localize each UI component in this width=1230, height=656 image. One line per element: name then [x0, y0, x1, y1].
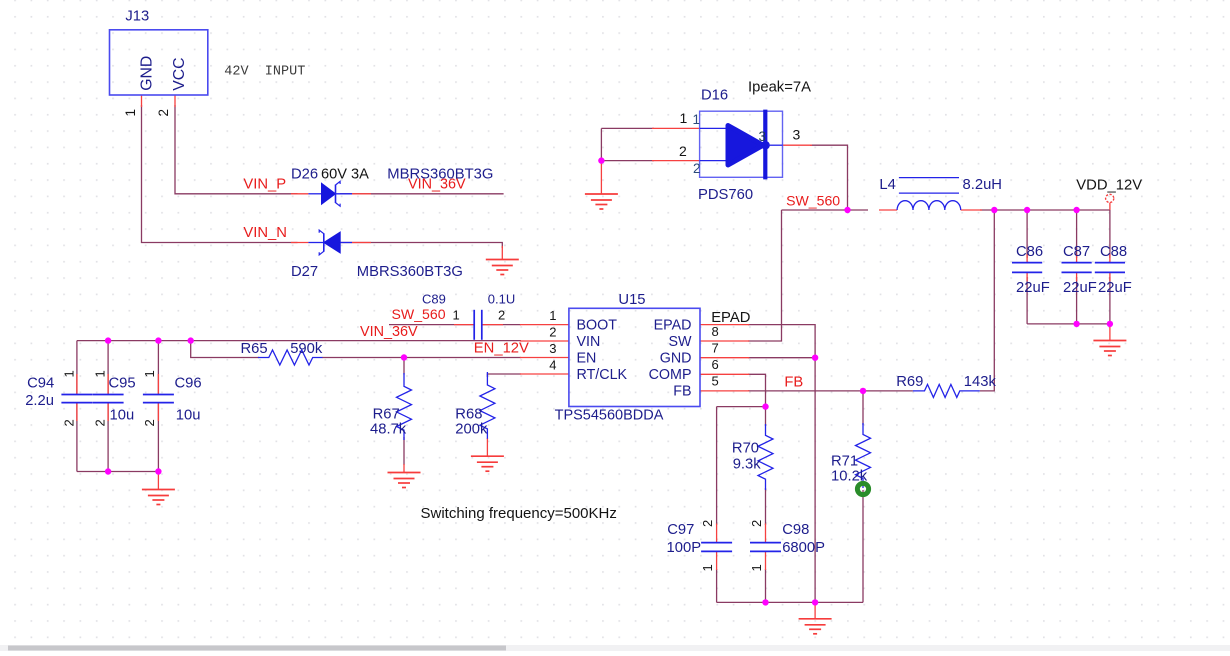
wire C98 below to bus — [765, 488, 767, 525]
svg-text:VCC: VCC — [171, 57, 188, 90]
svg-text:EPAD: EPAD — [711, 310, 750, 326]
junction C87 bottom — [1073, 321, 1079, 327]
scrollbar track — [0, 645, 1230, 651]
pin stub D26 cathode — [352, 193, 371, 195]
svg-text:BOOT: BOOT — [577, 317, 618, 333]
svg-text:6800P: 6800P — [782, 540, 825, 556]
pin stub C96 top — [157, 374, 159, 394]
svg-text:C87: C87 — [1063, 244, 1090, 260]
pin stub U15 pin1 — [520, 324, 569, 326]
pin stub D27 anode — [352, 242, 371, 244]
pin stub C96 bottom — [157, 403, 159, 421]
pin stub C97 top — [716, 524, 718, 543]
pin stub C89 pin2 — [482, 324, 503, 326]
ground D16 — [585, 194, 618, 209]
capacitor C87 — [1062, 244, 1097, 296]
junction R67 tap — [401, 354, 407, 360]
pin stub C87 bottom — [1076, 272, 1078, 281]
wire C86 bottom — [1026, 277, 1028, 324]
pin stub D26 anode — [291, 193, 308, 195]
ground C88 — [1093, 341, 1126, 356]
ground stub bottom bus — [814, 602, 816, 618]
wire EPAD row and vertical to bottom bus — [748, 325, 815, 603]
svg-text:R70: R70 — [732, 440, 759, 456]
ground stub R68 — [486, 438, 488, 456]
svg-text:RT/CLK: RT/CLK — [577, 367, 628, 383]
svg-text:3: 3 — [549, 341, 556, 356]
svg-text:R69: R69 — [896, 374, 923, 390]
capacitor C97 — [667, 520, 733, 572]
wire RT/CLK row and R68 drop — [487, 374, 521, 377]
svg-text:10u: 10u — [176, 408, 201, 424]
wire bottom ground bus — [717, 601, 863, 603]
junction C98 bottom bus — [762, 599, 768, 605]
wire R67 vertical — [403, 358, 405, 375]
wire C96 lead — [157, 341, 159, 395]
resistor R71 — [831, 423, 871, 488]
wire VCC pin2 to VIN_P row — [175, 105, 298, 194]
pin stub C88 top — [1109, 254, 1111, 263]
pin stub D16 pin2 — [652, 160, 700, 162]
svg-text:1: 1 — [749, 564, 764, 571]
capacitor C89 — [422, 292, 515, 340]
pin stub C86 bottom — [1026, 272, 1028, 281]
wire D16 pin3 to SW_560 corner — [810, 145, 848, 210]
capacitor C86 — [1012, 244, 1050, 296]
pin stub L4 right — [961, 209, 982, 211]
svg-text:SW_560: SW_560 — [786, 193, 840, 209]
pin stub C98 bottom — [765, 551, 767, 570]
pin stub U15 GND — [700, 357, 749, 359]
regulator U15 — [549, 292, 718, 423]
wire COMP jog to C97 — [717, 406, 766, 408]
junction C95 top — [105, 337, 111, 343]
wire L4 right to VDD corner — [980, 209, 1110, 211]
pin stub D27 cathode — [291, 242, 308, 244]
pin stub U15 FB — [700, 390, 749, 392]
ground C96 — [142, 490, 175, 505]
wire VIN_P row after D26 to VIN_36V end — [340, 193, 504, 195]
junction C88 bottom — [1107, 321, 1113, 327]
svg-text:1: 1 — [700, 564, 715, 571]
wire SW_560 bus to L4 — [782, 209, 869, 211]
pin stub C97 bottom — [716, 551, 718, 570]
svg-text:2: 2 — [156, 109, 171, 117]
svg-text:22uF: 22uF — [1016, 280, 1050, 296]
wire C97 below to bus — [716, 569, 718, 602]
svg-text:EN_12V: EN_12V — [474, 340, 529, 356]
wire R71 top lead — [862, 391, 864, 425]
svg-text:D16: D16 — [701, 87, 728, 103]
svg-text:100P: 100P — [667, 540, 702, 556]
svg-text:2: 2 — [549, 325, 556, 340]
wire bottom bus C94-C96 — [77, 471, 158, 473]
wire VIN_36V bus with C94 lead — [77, 340, 521, 342]
wire D16 pin1 left — [601, 127, 654, 129]
svg-text:PDS760: PDS760 — [698, 187, 753, 203]
pin stub J13 pin1 — [141, 95, 143, 107]
svg-text:5: 5 — [712, 373, 719, 388]
pin stub L4 left — [879, 209, 897, 211]
svg-text:MBRS360BT3G: MBRS360BT3G — [357, 264, 463, 280]
wire VIN_N row after D27 to ground corner — [340, 243, 502, 249]
pin stub U15 pin3 — [520, 357, 569, 359]
wire GND pin6 row — [748, 357, 815, 359]
junction C95 bottom — [105, 468, 111, 474]
pin stub D16 pin1 — [652, 127, 700, 129]
svg-text:GND: GND — [138, 56, 155, 91]
svg-text:1: 1 — [123, 109, 138, 117]
svg-text:48.7k: 48.7k — [370, 422, 407, 438]
svg-text:8: 8 — [712, 324, 719, 339]
pin stub C98 top — [765, 524, 767, 543]
svg-text:GND: GND — [660, 350, 692, 366]
svg-text:2: 2 — [693, 161, 701, 176]
svg-text:L4: L4 — [879, 177, 895, 193]
wire output cap ground bus — [1027, 323, 1110, 325]
svg-text:VIN_N: VIN_N — [243, 225, 287, 241]
svg-text:EN: EN — [577, 350, 597, 366]
pin stub U15 pin2 — [520, 340, 569, 342]
svg-text:VIN_P: VIN_P — [243, 176, 286, 192]
svg-text:2: 2 — [142, 419, 157, 426]
pin stub U15 EPAD — [700, 324, 749, 326]
wire C95 lead — [107, 341, 109, 395]
ground VIN_N — [486, 260, 519, 275]
wire C97 down — [716, 407, 718, 525]
pin stub U15 SW — [700, 340, 749, 342]
svg-text:0.1U: 0.1U — [488, 292, 515, 307]
svg-text:Switching frequency=500KHz: Switching frequency=500KHz — [421, 505, 617, 522]
diode D26 — [291, 167, 369, 207]
junction L4 out — [991, 207, 997, 213]
wire R69 right corner up to SW node — [980, 210, 995, 391]
svg-text:1: 1 — [93, 370, 108, 377]
ground R67 — [388, 473, 421, 488]
DRC marker green ring — [857, 483, 868, 494]
svg-text:1: 1 — [62, 370, 77, 377]
svg-text:VDD_12V: VDD_12V — [1076, 178, 1142, 194]
ground R68 — [471, 456, 504, 471]
svg-text:J13: J13 — [125, 9, 149, 25]
ground stub R67 — [403, 464, 405, 473]
scrollbar thumb — [8, 646, 506, 651]
wire D16 pin1 corner down to pin2 junction — [600, 128, 602, 160]
junction C86 top — [1024, 207, 1030, 213]
svg-text:8.2uH: 8.2uH — [963, 177, 1003, 193]
pin stub U15 COMP — [700, 373, 749, 375]
ground stub VIN_N — [501, 246, 503, 260]
resistor R70 — [732, 424, 773, 490]
connector J13 — [110, 9, 208, 117]
svg-text:10u: 10u — [110, 408, 135, 424]
wire C87 bottom — [1076, 277, 1078, 324]
ground stub D16 — [600, 161, 602, 194]
junction C96 bottom — [155, 468, 161, 474]
svg-text:1: 1 — [142, 370, 157, 377]
svg-text:C86: C86 — [1016, 244, 1043, 260]
pin stub J13 pin2 — [174, 95, 176, 107]
svg-text:200k: 200k — [455, 422, 488, 438]
svg-text:COMP: COMP — [649, 367, 692, 383]
junction GND pin row — [812, 355, 818, 361]
wire BOOT row left of C89 — [389, 324, 474, 326]
resistor R69 — [896, 374, 996, 398]
svg-text:7: 7 — [712, 341, 719, 356]
wire R71 bottom to bus — [862, 490, 864, 602]
svg-text:C96: C96 — [175, 376, 202, 392]
capacitor C95 — [93, 370, 136, 426]
pin stub C87 top — [1076, 254, 1078, 263]
capacitor C94 — [25, 370, 92, 426]
pin stub C86 top — [1026, 254, 1028, 263]
svg-text:2: 2 — [498, 308, 505, 323]
svg-text:2: 2 — [93, 419, 108, 426]
pin stub VDD port — [1109, 203, 1111, 210]
wire C88 lead — [1109, 210, 1111, 258]
svg-text:D27: D27 — [291, 264, 318, 280]
ground stub C88 — [1109, 324, 1111, 341]
svg-text:FB: FB — [673, 383, 691, 399]
svg-text:Ipeak=7A: Ipeak=7A — [748, 80, 811, 96]
svg-text:C98: C98 — [782, 522, 809, 538]
svg-text:C88: C88 — [1100, 244, 1127, 260]
wire C87 lead — [1076, 210, 1078, 258]
svg-text:C89: C89 — [422, 292, 446, 307]
wire COMP row corner down — [748, 374, 766, 406]
svg-text:R68: R68 — [455, 407, 482, 423]
svg-text:2.2u: 2.2u — [25, 393, 54, 409]
junction COMP node — [762, 403, 768, 409]
port VDD_12V — [1076, 178, 1142, 203]
junction C87 top — [1073, 207, 1079, 213]
svg-text:3: 3 — [793, 127, 801, 143]
wire R70 top — [765, 407, 767, 426]
svg-text:D26: D26 — [291, 167, 318, 183]
svg-text:1: 1 — [693, 112, 701, 127]
svg-text:2: 2 — [62, 419, 77, 426]
svg-text:22uF: 22uF — [1063, 280, 1097, 296]
wire GND pin1 to VIN_N row — [142, 105, 298, 243]
svg-text:1: 1 — [549, 308, 556, 323]
svg-text:42V INPUT: 42V INPUT — [224, 65, 305, 80]
dual diode D16 — [679, 80, 811, 203]
svg-text:9.3k: 9.3k — [733, 456, 762, 472]
junction SW_560 — [844, 207, 850, 213]
resistor R65 — [241, 341, 323, 365]
junction D16 gnd — [598, 157, 604, 163]
capacitor C98 — [749, 520, 825, 572]
wire EN branch through R65 to U15 pin3 — [191, 341, 259, 358]
pin stub C94 top — [76, 374, 78, 394]
inductor L4 — [879, 177, 1002, 210]
svg-text:1: 1 — [453, 308, 460, 323]
svg-text:C97: C97 — [667, 522, 694, 538]
svg-text:2: 2 — [749, 520, 764, 527]
pin stub D16 pin3 — [783, 144, 813, 146]
pin stub U15 pin4 — [520, 373, 569, 375]
svg-text:VIN: VIN — [577, 334, 601, 350]
svg-text:SW_560: SW_560 — [392, 306, 446, 322]
junction EN branch — [188, 337, 194, 343]
svg-text:60V 3A: 60V 3A — [321, 167, 369, 183]
svg-text:590k: 590k — [290, 341, 323, 357]
junction C96 top — [155, 337, 161, 343]
capacitor C88 — [1095, 244, 1132, 296]
wire FB row — [748, 390, 913, 392]
capacitor C96 — [142, 370, 202, 426]
wire C86 lead — [1026, 210, 1028, 258]
pin stub C88 bottom — [1109, 272, 1111, 281]
diode D27 — [291, 230, 463, 280]
svg-text:4: 4 — [549, 358, 556, 373]
pin stub C94 bottom — [76, 403, 78, 421]
wire C88 bottom — [1109, 277, 1111, 324]
svg-text:EPAD: EPAD — [654, 317, 692, 333]
svg-text:R65: R65 — [241, 341, 268, 357]
svg-text:C95: C95 — [109, 376, 136, 392]
svg-text:6: 6 — [712, 357, 719, 372]
wire D16 pin2 left — [601, 160, 654, 162]
wire BOOT row right of C89 — [482, 324, 521, 326]
svg-text:2: 2 — [679, 143, 687, 159]
pin stub C95 bottom — [107, 403, 109, 421]
svg-text:VIN_36V: VIN_36V — [408, 176, 466, 192]
svg-text:FB: FB — [784, 375, 803, 391]
junction gnd bottom bus — [812, 599, 818, 605]
svg-text:TPS54560BDDA: TPS54560BDDA — [555, 407, 664, 423]
pin stub C89 pin1 — [454, 324, 474, 326]
svg-text:C94: C94 — [27, 376, 54, 392]
svg-text:3: 3 — [759, 129, 767, 144]
resistor R67 — [370, 373, 412, 440]
svg-text:VIN_36V: VIN_36V — [360, 324, 418, 340]
svg-text:R67: R67 — [373, 407, 400, 423]
svg-text:U15: U15 — [618, 292, 645, 308]
ground stub C96 — [157, 472, 159, 490]
svg-text:R71: R71 — [831, 454, 858, 470]
resistor R68 — [455, 372, 495, 439]
ground bottom bus — [799, 619, 832, 634]
svg-text:143k: 143k — [964, 374, 997, 390]
junction FB node — [860, 388, 866, 394]
svg-text:SW: SW — [668, 334, 692, 350]
pin stub C95 top — [107, 374, 109, 394]
svg-text:2: 2 — [700, 520, 715, 527]
svg-text:22uF: 22uF — [1098, 280, 1132, 296]
svg-text:1: 1 — [680, 110, 688, 126]
wire SW vertical down to U15 pin7 — [748, 210, 782, 341]
